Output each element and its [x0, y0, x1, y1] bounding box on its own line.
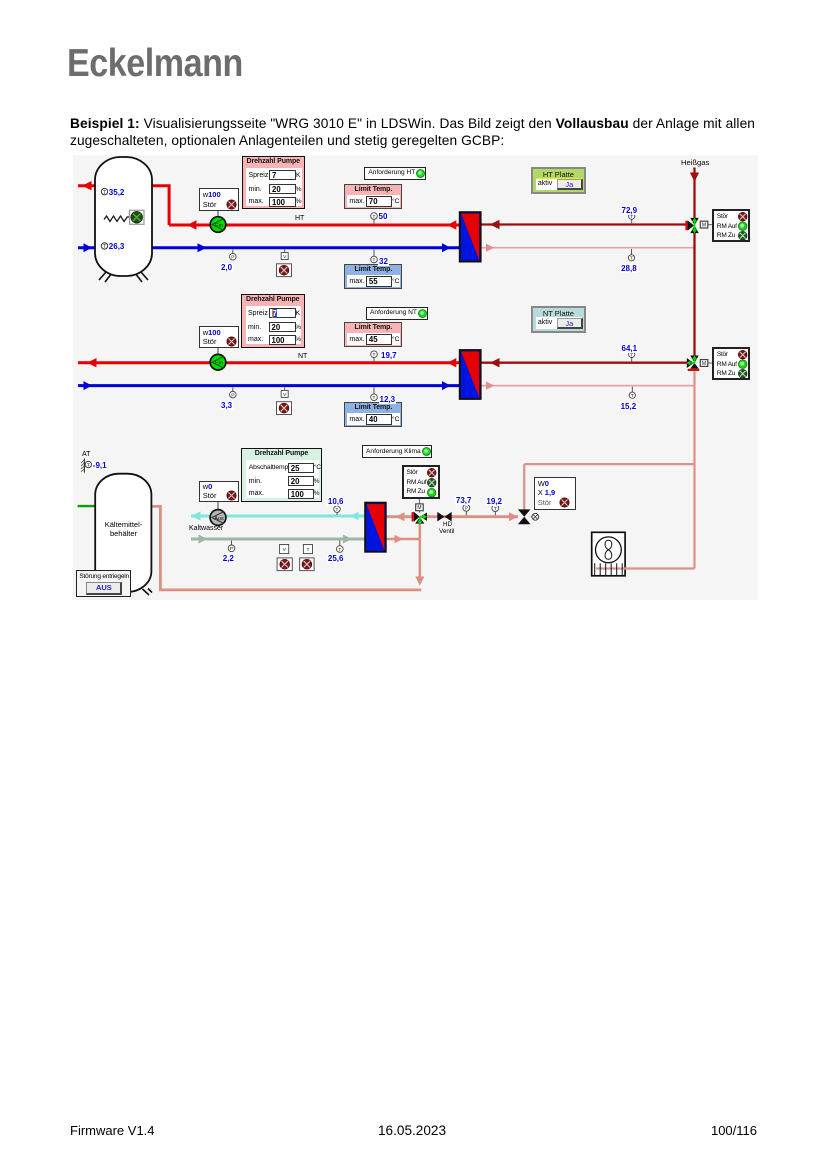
svg-text:P: P [231, 255, 234, 261]
svg-text:T: T [87, 462, 90, 468]
svg-text:T: T [373, 395, 376, 401]
svg-text:T: T [373, 214, 376, 220]
svg-text:T: T [103, 190, 106, 196]
svg-text:P: P [231, 393, 234, 399]
svg-text:T: T [373, 352, 376, 358]
svg-text:M: M [417, 505, 421, 511]
svg-text:T: T [373, 257, 376, 263]
svg-text:T: T [307, 547, 310, 553]
svg-text:T: T [336, 507, 339, 513]
svg-text:Ein: Ein [215, 223, 223, 229]
svg-text:Ein: Ein [215, 361, 223, 367]
svg-text:T: T [630, 352, 633, 358]
svg-text:T: T [103, 244, 106, 250]
svg-text:Aus: Aus [214, 516, 224, 522]
svg-text:T: T [630, 256, 633, 262]
svg-text:M: M [702, 361, 706, 367]
svg-text:T: T [494, 506, 497, 512]
svg-text:T: T [630, 214, 633, 220]
svg-text:P: P [230, 546, 233, 552]
svg-text:P: P [465, 506, 468, 512]
svg-text:T: T [338, 547, 341, 553]
svg-text:M: M [702, 223, 706, 229]
svg-text:T: T [631, 393, 634, 399]
